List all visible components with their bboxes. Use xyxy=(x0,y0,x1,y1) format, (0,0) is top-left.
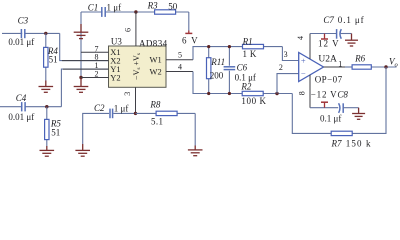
wire: junction down to X2 pin row xyxy=(60,33,109,60)
svg-text:1 μf: 1 μf xyxy=(114,104,129,114)
svg-text:R8: R8 xyxy=(149,99,160,109)
AD834 chip U3 xyxy=(109,36,168,87)
svg-text:R7: R7 xyxy=(331,139,342,149)
pin 6 (+Vs) xyxy=(124,12,136,46)
resistor R2 xyxy=(240,81,266,106)
pin 1 (Y1) xyxy=(63,61,109,70)
resistor R7 xyxy=(331,131,372,148)
svg-text:R1: R1 xyxy=(242,37,253,47)
svg-text:−: − xyxy=(301,68,306,78)
power 12V xyxy=(318,34,340,49)
svg-text:6: 6 xyxy=(124,28,133,32)
svg-text:U3: U3 xyxy=(111,36,122,46)
svg-text:51: 51 xyxy=(51,128,60,138)
wire: pin3 drop to +input xyxy=(282,47,298,61)
svg-text:−Vs +Vs: −Vs +Vs xyxy=(132,53,142,80)
svg-text:C4: C4 xyxy=(16,93,27,103)
svg-text:C2: C2 xyxy=(94,103,105,113)
node Vo: output junction xyxy=(384,65,387,68)
node: rail / pin6 junction xyxy=(134,10,137,13)
node: R11 bottom xyxy=(207,92,210,95)
capacitor C7 xyxy=(323,15,364,39)
ground (under C2) xyxy=(75,144,90,156)
resistor R8 xyxy=(136,99,196,126)
power -12V xyxy=(311,90,338,108)
pin 8 (V-) xyxy=(297,75,310,108)
wire: junction up to Y1 pin row xyxy=(61,69,108,107)
svg-text:8: 8 xyxy=(297,91,306,95)
svg-text:OP−07: OP−07 xyxy=(315,74,343,84)
pin 4 (W2) xyxy=(166,62,193,71)
ground (under R4) xyxy=(39,81,54,93)
resistor R1 xyxy=(242,37,264,59)
ground (under R8) xyxy=(188,146,203,156)
power 6V xyxy=(182,31,199,46)
pin 2 (Y2) xyxy=(81,70,109,79)
node: C2/pin3/R8 junction xyxy=(134,112,137,115)
resistor R6 xyxy=(352,54,396,70)
capacitor C6 xyxy=(224,47,256,94)
ground (upper, on C1 rail drop) xyxy=(74,24,89,39)
pin 7 (X1) xyxy=(81,44,109,53)
wire: C3 input row xyxy=(2,32,60,34)
pin 3 (-Vs) xyxy=(123,87,135,113)
capacitor C3 xyxy=(8,16,34,47)
svg-text:U2A: U2A xyxy=(318,55,337,65)
svg-text:R3: R3 xyxy=(147,0,158,10)
wire: W2 rail (bottom) xyxy=(193,72,292,94)
svg-text:W1: W1 xyxy=(150,55,162,65)
svg-text:Y2: Y2 xyxy=(110,72,120,82)
op-amp U2A xyxy=(299,53,343,85)
svg-text:0.01 μf: 0.01 μf xyxy=(8,37,34,47)
svg-text:5: 5 xyxy=(178,50,182,59)
svg-text:C7: C7 xyxy=(323,15,334,25)
svg-text:1 μf: 1 μf xyxy=(107,3,122,13)
resistor R5 xyxy=(45,107,62,146)
pin 4 (V+) xyxy=(296,34,310,60)
svg-text:C3: C3 xyxy=(18,16,29,26)
wire: C8 to ground xyxy=(343,107,358,109)
wire: output to R6 xyxy=(345,66,352,68)
node: R11 top xyxy=(207,45,210,48)
svg-text:2: 2 xyxy=(95,70,99,79)
wire: C7 to ground xyxy=(341,33,352,35)
wire: feedback loop xyxy=(331,67,386,133)
svg-text:150 k: 150 k xyxy=(346,139,372,149)
svg-text:R2: R2 xyxy=(240,81,251,91)
node A: C3/R4 junction xyxy=(44,32,47,35)
capacitor C4 xyxy=(8,93,34,122)
node: C4/R5 junction xyxy=(45,105,48,108)
svg-text:100 K: 100 K xyxy=(241,96,266,106)
svg-text:C6: C6 xyxy=(237,63,248,73)
svg-text:4: 4 xyxy=(296,36,305,40)
wire: C4 input row xyxy=(0,106,61,108)
resistor R11 xyxy=(207,47,226,94)
svg-text:200: 200 xyxy=(210,70,224,80)
svg-text:5.1: 5.1 xyxy=(151,117,163,127)
wire: left vertical (rail corner down through grounds to pins 7/2) xyxy=(80,12,82,78)
svg-text:4: 4 xyxy=(178,62,182,71)
node: C6 top xyxy=(228,45,231,48)
ground (C7) xyxy=(345,34,358,47)
svg-text:C1: C1 xyxy=(88,3,99,13)
wire: R8 to ground xyxy=(194,113,196,145)
capacitor C2 xyxy=(83,103,136,144)
pin 1 (output) xyxy=(324,66,346,68)
svg-text:0.1 μf: 0.1 μf xyxy=(338,15,365,25)
svg-text:AD834: AD834 xyxy=(139,38,168,48)
ground (C8) xyxy=(352,108,365,120)
svg-text:C8: C8 xyxy=(337,90,348,100)
svg-text:3: 3 xyxy=(284,50,288,59)
svg-text:0.1 μf: 0.1 μf xyxy=(320,113,341,123)
wire: V+ to C7 xyxy=(310,33,336,35)
svg-text:+: + xyxy=(301,55,306,65)
svg-text:12 V: 12 V xyxy=(318,39,340,49)
ground (X1/Y2 pins) xyxy=(74,78,89,93)
wire: 6V stub xyxy=(188,12,190,31)
svg-text:−12 V: −12 V xyxy=(311,90,338,100)
node: pin2/ground junction xyxy=(79,76,82,79)
svg-text:2: 2 xyxy=(279,63,283,72)
wire: W1 rail (top) xyxy=(193,47,282,60)
node: -input / rail junction xyxy=(275,92,278,95)
svg-text:6 V: 6 V xyxy=(182,36,199,46)
svg-text:1 K: 1 K xyxy=(243,49,257,59)
pin 8 (X2) xyxy=(62,53,109,62)
wire: V- to C8 xyxy=(310,107,338,109)
svg-text:R11: R11 xyxy=(210,57,225,67)
resistor R4 xyxy=(44,33,59,80)
resistor R3 xyxy=(147,0,178,14)
svg-text:R6: R6 xyxy=(354,54,365,64)
svg-text:0.01 μf: 0.01 μf xyxy=(8,112,34,122)
node: C6 bottom xyxy=(228,92,231,95)
svg-text:50: 50 xyxy=(168,2,178,12)
wire: pin2 rise to -input xyxy=(277,74,299,94)
capacitor C8 xyxy=(320,90,348,124)
wire: feedback to -input rail xyxy=(292,94,331,134)
pin 5 (W1) xyxy=(166,50,193,59)
svg-text:W2: W2 xyxy=(150,66,162,76)
wire: +Vs top rail xyxy=(81,11,189,13)
ground (under R5) xyxy=(40,146,55,156)
svg-text:51: 51 xyxy=(49,55,58,65)
capacitor C1 xyxy=(88,3,121,17)
svg-text:3: 3 xyxy=(123,92,132,96)
